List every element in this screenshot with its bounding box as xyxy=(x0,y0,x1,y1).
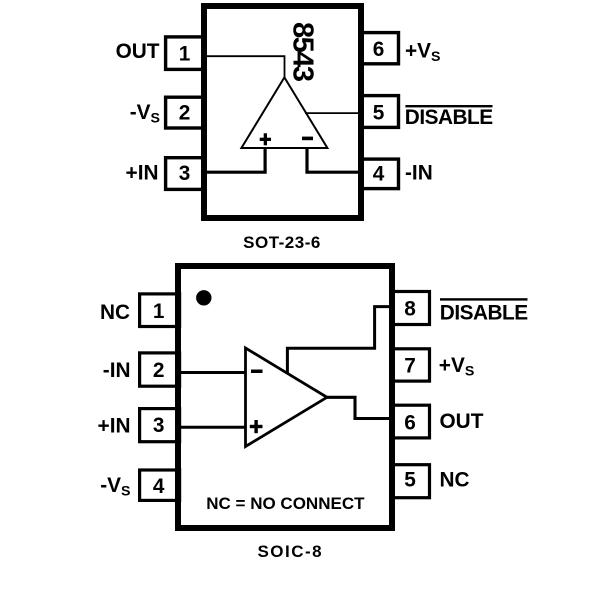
svg-text:+VS: +VS xyxy=(439,354,475,380)
svg-text:-VS: -VS xyxy=(100,474,130,500)
pin 2 box SOIC xyxy=(140,353,180,386)
wire pin 3 to op-amp U2 + input xyxy=(176,426,245,429)
svg-text:5: 5 xyxy=(373,102,385,125)
pin 7 box SOIC xyxy=(392,349,430,381)
svg-text:+IN: +IN xyxy=(98,415,131,438)
pin 2 box xyxy=(166,97,205,128)
svg-text:-IN: -IN xyxy=(405,161,433,184)
svg-text:NC = NO CONNECT: NC = NO CONNECT xyxy=(206,494,365,513)
wire pin 2 to op-amp U2 - input xyxy=(176,371,245,374)
svg-text:8543: 8543 xyxy=(287,22,319,82)
svg-text:2: 2 xyxy=(153,359,165,382)
svg-text:5: 5 xyxy=(404,469,416,492)
pin 5 box SOIC xyxy=(392,465,430,498)
svg-text:+IN: +IN xyxy=(126,162,159,185)
svg-text:OUT: OUT xyxy=(116,40,160,63)
svg-text:+VS: +VS xyxy=(405,39,441,65)
svg-text:NC: NC xyxy=(440,468,470,491)
svg-text:DISABLE: DISABLE xyxy=(405,106,493,129)
overline DISABLE pin 5 xyxy=(405,105,492,107)
wire pin 3 to op-amp U1 + input xyxy=(204,147,265,172)
svg-text:2: 2 xyxy=(179,101,191,124)
pin 5 box xyxy=(360,96,399,128)
svg-text:SOT-23-6: SOT-23-6 xyxy=(243,233,321,252)
pin 4 box xyxy=(360,159,399,189)
svg-text:4: 4 xyxy=(373,162,385,185)
svg-text:6: 6 xyxy=(404,412,416,435)
pin 6 box xyxy=(360,33,399,64)
svg-text:OUT: OUT xyxy=(440,410,484,433)
op-amp U1 - input symbol xyxy=(302,137,313,141)
op-amp U2 + input symbol xyxy=(250,420,263,433)
pin 6 box SOIC xyxy=(392,405,430,438)
pin 8 box SOIC xyxy=(392,292,430,325)
pin 3 box xyxy=(166,158,205,190)
op-amp U2 xyxy=(246,348,328,447)
wire op-amp U2 output to pin 6 xyxy=(327,397,392,418)
wire pin 8 DISABLE to op-amp U2 top edge xyxy=(287,307,392,374)
wire pin 5 to op-amp U1 right edge xyxy=(305,112,362,114)
svg-text:6: 6 xyxy=(373,38,385,61)
svg-text:4: 4 xyxy=(153,475,165,498)
wire pin 1 to op-amp U1 output xyxy=(204,56,285,79)
svg-text:3: 3 xyxy=(179,162,191,185)
svg-text:-IN: -IN xyxy=(103,359,131,382)
pin 1 marker dot xyxy=(196,290,211,305)
svg-text:SOIC-8: SOIC-8 xyxy=(257,542,323,561)
svg-text:NC: NC xyxy=(100,301,130,324)
svg-text:7: 7 xyxy=(404,355,416,378)
svg-text:-VS: -VS xyxy=(130,101,160,127)
op-amp U1 xyxy=(241,77,327,148)
overline DISABLE pin 8 SOIC xyxy=(440,298,528,300)
package outline SOIC-8 xyxy=(178,266,392,528)
svg-text:8: 8 xyxy=(404,298,416,321)
op-amp U1 + input symbol xyxy=(260,133,271,145)
svg-text:1: 1 xyxy=(153,300,165,323)
svg-text:DISABLE: DISABLE xyxy=(440,301,528,324)
svg-text:1: 1 xyxy=(179,43,191,66)
pin 1 box xyxy=(166,37,205,70)
pin 1 box SOIC xyxy=(140,294,180,327)
wire pin 4 to op-amp U1 - input xyxy=(307,147,362,172)
svg-text:3: 3 xyxy=(153,414,165,437)
pin 4 box SOIC xyxy=(140,470,180,500)
package outline SOT-23-6 xyxy=(204,6,361,218)
op-amp U2 - input symbol xyxy=(251,370,263,374)
pin 3 box SOIC xyxy=(140,409,180,442)
